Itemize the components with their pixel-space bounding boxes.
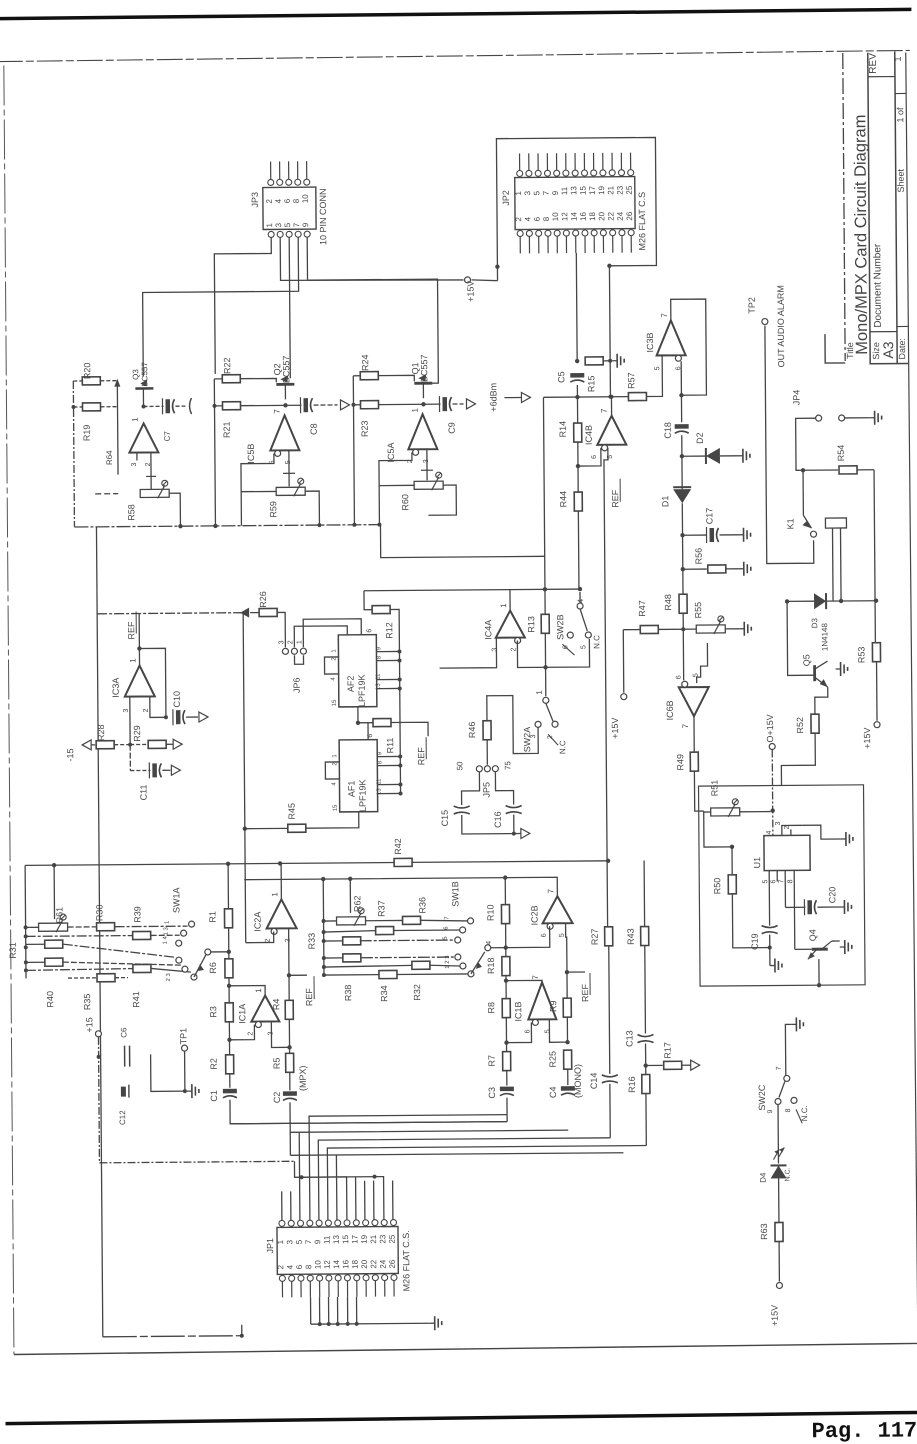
svg-text:R42: R42 xyxy=(393,838,403,855)
svg-text:75: 75 xyxy=(503,761,512,771)
svg-text:REF: REF xyxy=(304,988,314,1007)
svg-text:18: 18 xyxy=(351,1259,360,1269)
wire C1 down right xyxy=(230,1098,507,1124)
op-amp IC1B xyxy=(528,982,556,1019)
wire IC6A out to trimmer xyxy=(150,452,152,489)
svg-text:R5: R5 xyxy=(272,1058,282,1070)
svg-text:R12: R12 xyxy=(384,622,394,639)
svg-text:SW1A: SW1A xyxy=(171,887,181,913)
wire R44 to SW2B node xyxy=(577,511,580,588)
junction C16 rail xyxy=(512,832,516,836)
title block inner lines xyxy=(868,76,908,331)
frame bottom edge xyxy=(14,1343,917,1354)
svg-text:13: 13 xyxy=(377,788,383,795)
svg-text:R28: R28 xyxy=(96,725,106,742)
wire R24 to Q1 xyxy=(378,375,414,381)
diode D2 xyxy=(682,455,706,457)
arrow C10 gnd xyxy=(199,712,208,722)
wire x98 long rail xyxy=(96,527,102,1337)
resistor R42 xyxy=(394,858,412,866)
svg-text:2: 2 xyxy=(265,198,274,203)
wire IC4A pin3 xyxy=(439,638,496,668)
svg-text:15: 15 xyxy=(333,804,339,811)
resistor R47 xyxy=(640,625,658,633)
svg-text:Date:: Date: xyxy=(897,338,907,360)
svg-text:JP5: JP5 xyxy=(481,782,491,798)
wire IC3B pin6 xyxy=(680,361,682,395)
svg-text:5: 5 xyxy=(559,933,566,937)
svg-text:10: 10 xyxy=(551,212,560,222)
wire R62 to R36 xyxy=(366,919,403,921)
ground JP1 xyxy=(430,1322,435,1324)
capacitor C18 xyxy=(675,424,689,429)
junction IC3A fb xyxy=(137,646,141,650)
wire JP2 right rail down xyxy=(609,266,610,397)
svg-text:JP1: JP1 xyxy=(265,1238,275,1254)
wire TP1 stub xyxy=(151,1054,185,1091)
transistor Q4 xyxy=(812,948,828,951)
wire C3 down right xyxy=(506,1098,508,1115)
svg-text:R41: R41 xyxy=(131,991,141,1008)
ground U1 top xyxy=(803,825,841,839)
wire C17 node to R56 node xyxy=(682,535,684,569)
svg-text:1: 1 xyxy=(332,754,338,758)
junction C17 node xyxy=(680,533,684,537)
wire R2 to C1 xyxy=(229,1074,231,1088)
svg-text:16: 16 xyxy=(341,1259,350,1269)
wire R15 to gnd rail xyxy=(603,360,610,362)
junction R50 top xyxy=(730,845,734,849)
svg-text:24: 24 xyxy=(379,1259,388,1269)
diode D3 xyxy=(787,600,814,602)
resistor R30 xyxy=(97,923,115,931)
svg-text:3: 3 xyxy=(274,222,283,227)
svg-text:21: 21 xyxy=(369,1234,378,1244)
svg-text:IC3B: IC3B xyxy=(645,332,655,352)
resistor R35 xyxy=(45,958,63,966)
svg-text:D4: D4 xyxy=(759,1172,768,1183)
junction C5 top xyxy=(575,359,579,363)
svg-text:U1: U1 xyxy=(752,857,762,869)
svg-text:R29: R29 xyxy=(132,725,142,742)
svg-text:R40: R40 xyxy=(45,991,55,1008)
frame right edge xyxy=(906,52,917,1343)
ground D2 xyxy=(738,455,743,457)
svg-text:R61: R61 xyxy=(54,907,64,924)
power +15V right xyxy=(874,722,880,728)
wire R62 wiper bus xyxy=(349,879,351,913)
wire C14 down xyxy=(609,1084,611,1138)
ground JP4 xyxy=(870,417,875,419)
svg-text:R4: R4 xyxy=(271,999,281,1011)
svg-text:C16: C16 xyxy=(493,811,503,828)
capacitor C3 xyxy=(500,1087,514,1092)
resistor R44 xyxy=(574,492,582,511)
svg-text:8: 8 xyxy=(292,198,301,203)
svg-text:6: 6 xyxy=(676,675,683,679)
svg-text:R55: R55 xyxy=(693,602,703,619)
svg-text:3: 3 xyxy=(285,1239,294,1244)
svg-text:R63: R63 xyxy=(759,1223,769,1240)
svg-text:JP2: JP2 xyxy=(501,190,511,206)
svg-text:C6: C6 xyxy=(119,1027,128,1038)
svg-text:BC557: BC557 xyxy=(419,354,429,382)
svg-text:7: 7 xyxy=(304,1239,313,1244)
svg-text:R59: R59 xyxy=(268,501,278,518)
wire IC6B out to R49 xyxy=(693,716,695,752)
svg-text:R21: R21 xyxy=(222,422,232,439)
wire AF2 pin2 to R11 xyxy=(358,707,373,723)
svg-text:R50: R50 xyxy=(712,878,722,895)
svg-text:23: 23 xyxy=(378,1234,387,1244)
wire R1 top xyxy=(227,864,229,909)
op-amp IC5B xyxy=(270,415,299,450)
svg-text:1: 1 xyxy=(131,417,140,422)
resistor R48 xyxy=(679,594,687,613)
svg-text:IC5A: IC5A xyxy=(386,442,396,462)
junction R29 node xyxy=(128,743,132,747)
svg-text:5: 5 xyxy=(544,1029,551,1033)
junction main audio node xyxy=(575,395,579,399)
connector JP1 pins xyxy=(279,1220,285,1226)
wire JP1 feed 361 xyxy=(364,1181,366,1223)
svg-text:R62: R62 xyxy=(352,895,362,912)
trimmer R59 xyxy=(276,487,305,495)
svg-text:6: 6 xyxy=(591,455,598,459)
svg-text:26: 26 xyxy=(625,211,634,221)
U1 top pins xyxy=(782,825,803,835)
resistor R50 xyxy=(731,847,733,875)
wire R11 to REF xyxy=(391,722,428,736)
wire SW2A pin3 loop xyxy=(487,695,538,753)
svg-text:R30: R30 xyxy=(94,905,104,922)
svg-text:7: 7 xyxy=(292,222,301,227)
svg-text:2 3: 2 3 xyxy=(166,972,172,981)
svg-text:K1: K1 xyxy=(785,518,795,529)
svg-text:2: 2 xyxy=(514,216,523,221)
junctions AF2 right xyxy=(397,649,401,653)
svg-text:+15V: +15V xyxy=(466,281,476,302)
svg-text:23: 23 xyxy=(616,185,625,195)
svg-text:SW2B: SW2B xyxy=(555,614,565,640)
svg-text:5: 5 xyxy=(654,366,661,370)
junction R51 O15V xyxy=(770,808,774,812)
svg-text:Q5: Q5 xyxy=(801,654,811,666)
junction D3 right xyxy=(874,598,878,602)
wire C5 to main node xyxy=(576,385,578,397)
junction R33 dots xyxy=(322,919,326,923)
wire SW2C gnd leg xyxy=(785,1024,791,1075)
connector JP3 pins xyxy=(268,179,274,185)
svg-text:Q4: Q4 xyxy=(808,929,818,941)
resistor R20 xyxy=(82,377,100,385)
svg-text:5: 5 xyxy=(532,190,541,195)
junction D3 left xyxy=(785,599,789,603)
wire IC4B pin5 REF rail xyxy=(604,448,612,927)
svg-text:50: 50 xyxy=(455,761,464,771)
svg-text:8: 8 xyxy=(304,1264,313,1269)
resistor R19 xyxy=(82,403,100,411)
svg-text:1: 1 xyxy=(331,649,337,653)
wire IC5A pin3 to R60 xyxy=(426,449,428,480)
svg-text:R19: R19 xyxy=(82,425,92,442)
resistor R37 xyxy=(376,927,394,935)
svg-text:1 2 3: 1 2 3 xyxy=(445,955,451,969)
trimmer R61 xyxy=(39,923,68,931)
wire R52 into osc box xyxy=(781,733,815,785)
junction JP2 left rail xyxy=(495,264,499,268)
resistor R56 xyxy=(683,568,707,570)
resistor R26 xyxy=(97,613,259,614)
wire IC4B pin6 loop xyxy=(578,448,601,466)
wire R16 down xyxy=(645,1094,647,1146)
capacitor C1 xyxy=(223,1089,237,1094)
svg-text:REF: REF xyxy=(610,489,620,508)
wire IC4B out up xyxy=(610,397,612,416)
svg-text:1: 1 xyxy=(893,56,903,61)
svg-text:C9: C9 xyxy=(447,422,457,434)
transistor Q1 xyxy=(414,382,432,385)
bus C14 line xyxy=(318,1138,611,1223)
trimmer R60 xyxy=(414,481,443,489)
wire JP6 pin2 up xyxy=(294,626,347,647)
svg-text:REF: REF xyxy=(416,747,426,766)
wire IC1B out xyxy=(506,980,542,982)
svg-text:D2: D2 xyxy=(695,432,705,444)
resistor R53 xyxy=(872,643,880,662)
label REF R9 xyxy=(567,971,585,973)
wire R54 to R53 rail xyxy=(874,470,875,643)
capacitor C4 xyxy=(561,1086,575,1091)
svg-text:7: 7 xyxy=(273,409,282,414)
svg-text:M26 FLAT C.S.: M26 FLAT C.S. xyxy=(401,1230,411,1291)
capacitor C20 xyxy=(807,900,812,914)
svg-text:Document Number: Document Number xyxy=(872,243,884,328)
wire R37 to SW1B xyxy=(394,929,460,932)
resistor R46 xyxy=(483,721,491,740)
svg-text:R64: R64 xyxy=(105,450,114,465)
wire C19 down gnd xyxy=(769,935,771,966)
svg-text:21: 21 xyxy=(606,185,615,195)
switch SW1A lever xyxy=(194,955,206,977)
wire Q5 emitter to R52 xyxy=(815,687,828,714)
wire JP1 bottom bus xyxy=(310,1297,312,1324)
capacitor C9 xyxy=(442,397,447,411)
svg-text:18: 18 xyxy=(588,211,597,221)
svg-text:5: 5 xyxy=(762,880,769,884)
junction R21 rail xyxy=(212,404,216,408)
svg-text:R15: R15 xyxy=(586,376,596,393)
svg-text:7: 7 xyxy=(660,313,669,318)
svg-text:R44: R44 xyxy=(558,491,568,508)
svg-text:D1: D1 xyxy=(660,496,670,508)
title block step xyxy=(825,334,845,363)
wire AF1 right rail xyxy=(399,722,402,793)
filter AF2 xyxy=(338,635,377,707)
junction bus2 x504 xyxy=(503,875,507,879)
junction R17 node xyxy=(643,1063,647,1067)
svg-text:C18: C18 xyxy=(663,422,673,439)
svg-text:R57: R57 xyxy=(626,372,636,389)
capacitor C6 xyxy=(124,1046,126,1067)
bus line 1160 xyxy=(99,1161,294,1163)
svg-text:25: 25 xyxy=(388,1234,397,1244)
junction left rail xyxy=(71,405,75,409)
svg-text:6: 6 xyxy=(770,879,777,883)
wire JP1 bottom stubs xyxy=(319,1297,321,1324)
op-amp IC2A xyxy=(266,899,296,928)
svg-text:R18: R18 xyxy=(486,957,496,974)
svg-text:C12: C12 xyxy=(118,1110,127,1125)
net arrow R64 rail xyxy=(116,386,119,475)
arrow C8 out xyxy=(340,400,349,410)
svg-text:OUT AUDIO ALARM: OUT AUDIO ALARM xyxy=(776,285,787,367)
svg-text:7: 7 xyxy=(681,723,690,728)
svg-text:9: 9 xyxy=(301,222,310,227)
svg-text:14: 14 xyxy=(569,212,578,222)
svg-text:10 PIN CONN: 10 PIN CONN xyxy=(318,188,328,245)
resistor R17 xyxy=(646,1064,663,1066)
junction TP1 xyxy=(183,1089,187,1093)
wire R55 wiper to pin5 xyxy=(696,643,707,683)
resistor R34 xyxy=(379,970,397,978)
svg-text:C4: C4 xyxy=(548,1086,558,1098)
ground R55 xyxy=(739,628,744,630)
svg-text:BC557: BC557 xyxy=(140,362,149,387)
svg-text:AF1: AF1 xyxy=(346,781,356,798)
wire node to R14 xyxy=(576,397,578,423)
resistor R5 xyxy=(288,1019,290,1053)
junction R45 left xyxy=(243,826,247,830)
wire JP2 top bracket xyxy=(496,137,656,280)
junction bus1 x279 xyxy=(278,861,282,865)
wire D2 node to D1 xyxy=(681,456,683,489)
resistor R37b xyxy=(97,974,115,982)
wire R57 to IC3B pin5 xyxy=(646,355,662,396)
svg-text:2: 2 xyxy=(276,1264,285,1269)
junction K1 top xyxy=(801,468,805,472)
svg-text:3: 3 xyxy=(131,462,138,466)
svg-text:R47: R47 xyxy=(637,600,647,617)
svg-text:R22: R22 xyxy=(222,358,232,375)
arrow C9 out xyxy=(466,399,475,409)
wire R14 to R44 xyxy=(577,442,579,492)
wire R53 to +15V xyxy=(876,662,878,721)
wire C18 column xyxy=(680,395,682,422)
svg-text:12: 12 xyxy=(560,212,569,222)
wire left dash rail xyxy=(73,381,74,527)
wire R58 to bus xyxy=(169,493,180,526)
svg-text:R2: R2 xyxy=(209,1058,219,1070)
arrow R17 out xyxy=(682,1064,691,1066)
svg-text:6: 6 xyxy=(533,216,542,221)
svg-text:7: 7 xyxy=(778,879,785,883)
wire R56 node to R48 xyxy=(682,569,684,594)
svg-text:20: 20 xyxy=(597,211,606,221)
wire R13 bottom xyxy=(544,633,546,696)
wire JP5 50 to C15 xyxy=(461,772,479,805)
resistor R2 xyxy=(228,1022,230,1055)
resistor R23 xyxy=(360,401,378,409)
svg-text:C17: C17 xyxy=(704,508,714,525)
svg-text:R45: R45 xyxy=(287,803,297,820)
svg-text:-15: -15 xyxy=(65,748,75,761)
svg-text:11: 11 xyxy=(376,673,382,680)
junction R1 R6 xyxy=(227,950,231,954)
capacitor C5 xyxy=(570,373,584,378)
svg-text:13: 13 xyxy=(376,683,382,690)
wire R33 bracket xyxy=(322,879,325,975)
wire TP2 down xyxy=(765,325,814,563)
resistor R22 xyxy=(222,375,240,383)
transistor Q3 input xyxy=(135,387,153,390)
connector JP5 xyxy=(476,766,482,772)
svg-text:R14: R14 xyxy=(558,421,568,438)
junction +15 dash xyxy=(97,1055,101,1059)
svg-text:D3: D3 xyxy=(810,617,819,628)
svg-text:R37: R37 xyxy=(376,900,386,917)
op-amp IC6B inverted xyxy=(679,687,709,716)
svg-text:LPF19K: LPF19K xyxy=(357,674,367,707)
wire IC2A pin3 down xyxy=(288,928,290,975)
svg-text:4: 4 xyxy=(766,830,773,834)
svg-text:R8: R8 xyxy=(486,1002,496,1014)
svg-text:9: 9 xyxy=(551,190,560,195)
op-amp IC3A xyxy=(125,665,155,696)
svg-text:2: 2 xyxy=(287,640,294,644)
svg-text:BC557: BC557 xyxy=(281,356,291,384)
svg-text:7: 7 xyxy=(542,190,551,195)
bus R16 line xyxy=(327,1146,647,1224)
svg-text:15: 15 xyxy=(341,1234,350,1244)
wire R13 top xyxy=(544,589,546,614)
svg-text:TP1: TP1 xyxy=(178,1028,188,1045)
wire R24 R23 left rail xyxy=(353,375,360,377)
wire R12 line xyxy=(364,591,372,610)
svg-text:22: 22 xyxy=(606,211,615,221)
wire IC2B pin5 xyxy=(566,923,567,972)
svg-text:9: 9 xyxy=(767,1109,774,1113)
svg-text:C5: C5 xyxy=(556,371,566,383)
svg-text:R17: R17 xyxy=(663,1042,673,1059)
wire bus to main line xyxy=(380,523,544,557)
ground TP1 xyxy=(187,1090,192,1092)
svg-text:14: 14 xyxy=(332,1259,341,1269)
svg-text:C1: C1 xyxy=(209,1090,219,1102)
wire JP4 left leg xyxy=(796,418,816,470)
svg-text:5: 5 xyxy=(295,1239,304,1244)
wire IC1A pin3 xyxy=(271,1021,289,1047)
wire Q4 to box bottom xyxy=(818,959,820,985)
svg-text:4: 4 xyxy=(331,677,337,681)
wire R36 to SW1B xyxy=(421,920,468,921)
svg-text:5: 5 xyxy=(443,936,449,940)
junction R47 R48 xyxy=(681,627,685,631)
svg-text:R56: R56 xyxy=(694,548,704,565)
svg-text:AF2: AF2 xyxy=(346,676,356,693)
wire JP3 pin3 down to Q2 xyxy=(289,237,290,378)
svg-text:(MONO): (MONO) xyxy=(573,1064,583,1098)
junction box bottom xyxy=(817,983,821,987)
svg-text:C14: C14 xyxy=(589,1073,599,1090)
diode D4 LED xyxy=(770,1164,786,1166)
wire R27 to C14 xyxy=(609,946,610,1074)
svg-text:R13: R13 xyxy=(526,616,536,633)
arrow deemph out xyxy=(521,828,530,838)
resistor R40 xyxy=(45,940,63,948)
ground C20 xyxy=(839,906,844,908)
svg-text:R33: R33 xyxy=(307,933,317,950)
